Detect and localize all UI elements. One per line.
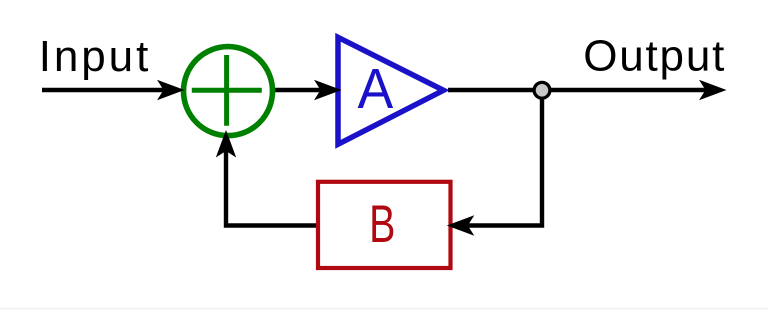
wire block B output left and up into summing junction	[226, 150, 318, 226]
arrowhead input into summing junction	[157, 80, 185, 100]
svg-text:A: A	[357, 56, 393, 120]
wire amplifier to output node	[448, 88, 542, 92]
wire input to summing junction	[42, 88, 165, 92]
wire summing junction to amplifier	[272, 88, 322, 92]
svg-text:Input: Input	[39, 32, 149, 81]
arrowhead up into summing junction	[216, 130, 236, 158]
summing junction plus sign	[192, 55, 262, 126]
summing junction S1 circle	[184, 47, 273, 136]
arrowhead into amplifier	[314, 80, 342, 100]
arrowhead output	[699, 80, 727, 100]
node output junction	[534, 82, 550, 98]
wire feedback from node down and left into block B	[464, 94, 542, 226]
block B rectangle	[318, 182, 451, 268]
svg-text:Output: Output	[583, 32, 724, 81]
label B	[369, 194, 395, 253]
wire output node to Output arrow	[542, 88, 707, 92]
arrowhead into block B	[447, 215, 475, 235]
op-amp A triangle	[338, 37, 444, 144]
faint bottom artifact line	[0, 308, 768, 310]
svg-text:B: B	[369, 194, 395, 253]
label A	[357, 56, 393, 120]
